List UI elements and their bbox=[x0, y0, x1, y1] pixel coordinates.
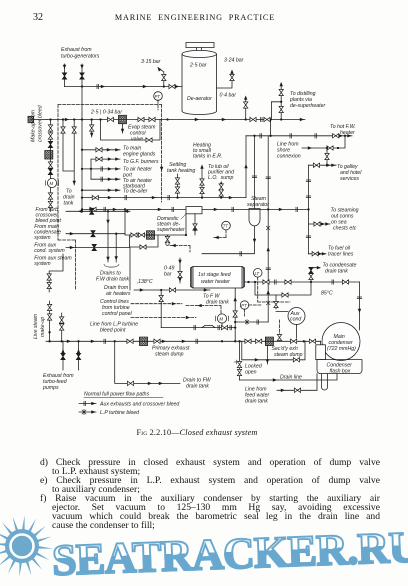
svg-text:pumps: pumps bbox=[42, 385, 59, 391]
svg-text:M: M bbox=[50, 181, 54, 186]
svg-text:chests etc: chests etc bbox=[333, 226, 357, 232]
label: Heating to small tanks in E.R. bbox=[193, 143, 222, 160]
heater outlet row y282 bbox=[245, 281, 360, 283]
svg-text:LT: LT bbox=[255, 271, 260, 276]
label: Exhaust from turbo-feed pumps bbox=[42, 373, 74, 391]
pipe: heater drain to FW drain tank bbox=[196, 306, 221, 314]
label: 0.49 bar bbox=[164, 266, 174, 278]
separator feed pipe bbox=[254, 136, 256, 209]
bypass under de-superheater control valve bbox=[130, 235, 159, 247]
locked open valves bbox=[239, 341, 241, 380]
branch: to air heater starboard bbox=[91, 178, 120, 180]
riser from hot FW line to settling header bbox=[245, 136, 247, 198]
wire: drops from reduced range to drain tank bbox=[63, 120, 74, 186]
pipe: hot FW heater line y135.8 bbox=[246, 120, 352, 136]
svg-text:PT: PT bbox=[241, 303, 247, 308]
svg-text:De-aerator: De-aerator bbox=[187, 96, 212, 102]
svg-text:Live steam: Live steam bbox=[33, 313, 39, 339]
svg-text:Aux exhausts and crossover ble: Aux exhausts and crossover bleed bbox=[99, 402, 180, 408]
label: To condensate drain tank bbox=[323, 263, 357, 275]
valves: pressure reducing station right pair bbox=[250, 117, 256, 121]
label: live steam make-up (rotated) bbox=[33, 313, 46, 339]
label: To lub oil purifier and L.O. sump bbox=[207, 164, 235, 181]
dashed control to de-superheater bbox=[170, 246, 190, 253]
pipe: crossover bleed inlet y211.3 bbox=[66, 210, 130, 212]
svg-text:3·15 bar: 3·15 bar bbox=[141, 59, 161, 65]
label: make-up from crossover bleed (rotated) bbox=[31, 104, 44, 142]
instrument TT bbox=[222, 221, 231, 230]
drop to galley line bbox=[326, 148, 328, 165]
svg-text:superheater: superheater bbox=[157, 227, 185, 233]
label: Primary exhaust steam dump bbox=[152, 346, 190, 358]
svg-text:Normal full power flow paths: Normal full power flow paths bbox=[84, 392, 150, 398]
primary exhaust steam dump station bbox=[127, 339, 133, 343]
label: Evap steam control valve bbox=[128, 125, 156, 143]
relief valve with dashed control bbox=[279, 320, 281, 334]
label: Drain to FW drain tank bbox=[183, 378, 212, 390]
pipe: line from feed water drain tank bbox=[277, 374, 317, 391]
pipe: drain to FW drain tank bbox=[115, 341, 180, 383]
settling tank heating valves bbox=[177, 174, 179, 198]
valve on exhaust range bbox=[169, 84, 175, 88]
svg-text:‚138°C: ‚138°C bbox=[136, 279, 153, 285]
label: To F W drain tank bbox=[203, 294, 229, 306]
svg-text:L.O. sump: L.O. sump bbox=[208, 175, 233, 181]
svg-text:TT: TT bbox=[223, 224, 229, 229]
svg-text:open: open bbox=[245, 370, 257, 376]
instrument PT bbox=[154, 92, 163, 101]
label: From aux steam system bbox=[34, 256, 72, 268]
left column: live steam / condensate make-up train bbox=[50, 120, 52, 212]
branch: fuel oil tracer lines y253.8 bbox=[309, 253, 327, 255]
label: From aux cond system bbox=[34, 243, 65, 255]
valve: upstream of evap control valve bbox=[107, 117, 113, 121]
L.P. bleed riser x268.2 bbox=[267, 136, 269, 322]
label: Settling tank heating bbox=[167, 162, 195, 174]
svg-text:85°C: 85°C bbox=[321, 291, 333, 297]
label: Domestic steam de-superheater bbox=[157, 214, 186, 233]
svg-text:(722 mmHg): (722 mmHg) bbox=[327, 346, 356, 352]
label: Line from shore connexion bbox=[277, 142, 301, 160]
svg-text:bar: bar bbox=[164, 272, 172, 278]
pipe: engine room services header y209.4 bbox=[82, 208, 309, 210]
svg-text:M: M bbox=[219, 317, 223, 322]
drain drop x116 bbox=[115, 234, 117, 262]
watermark text bbox=[51, 522, 408, 586]
label: Control lines from turbine control panel bbox=[100, 299, 133, 317]
pipe: main L.P. exhaust range y341.3 bbox=[46, 340, 321, 342]
svg-text:drain tank: drain tank bbox=[206, 300, 229, 306]
label: Sec'd'y exh steam dump bbox=[272, 346, 303, 358]
control valve (hatched) make-up bbox=[45, 151, 53, 159]
svg-text:Exhaust from: Exhaust from bbox=[61, 47, 92, 53]
branch: to de-oiler bbox=[82, 189, 120, 191]
label: Locked open bbox=[245, 364, 263, 376]
svg-text:heater: heater bbox=[340, 130, 355, 136]
svg-text:1st stage feed: 1st stage feed bbox=[198, 272, 232, 278]
bypass loop secondary dump bbox=[242, 341, 305, 360]
wire: turbo-generator exhaust drops bbox=[65, 64, 83, 87]
to condensate drain tank branch bbox=[311, 268, 317, 282]
svg-text:steam dump: steam dump bbox=[274, 352, 303, 358]
svg-text:2·5 bar: 2·5 bar bbox=[189, 63, 207, 69]
svg-text:drain tank: drain tank bbox=[325, 269, 348, 275]
control valve (hatched) de-superheater bbox=[147, 231, 155, 239]
bypass loop around evap control valve bbox=[101, 120, 161, 141]
label: From main condensate system bbox=[34, 224, 61, 241]
svg-text:drain tank: drain tank bbox=[186, 384, 209, 390]
control valve (hatched) evap steam bbox=[119, 115, 127, 123]
pipe: to aux condenser y322 bbox=[235, 321, 268, 323]
label: To steaming out conns on sea chests etc bbox=[331, 208, 359, 232]
dashed control lines from panel bbox=[131, 304, 196, 318]
branch: to air heater port bbox=[82, 168, 120, 170]
label: Line from feed water drain tank bbox=[245, 387, 269, 405]
heating small tanks valves bbox=[201, 166, 203, 198]
aux condenser feed valve bbox=[276, 295, 288, 312]
bypass row y295 bbox=[255, 282, 311, 295]
drain drop x108 bbox=[107, 211, 109, 262]
barometric seal leg bbox=[322, 374, 328, 390]
svg-text:de-superheater: de-superheater bbox=[290, 103, 325, 109]
svg-text:air heaters: air heaters bbox=[106, 291, 131, 297]
pipe: air heater drain y290 bbox=[134, 290, 210, 328]
svg-text:control panel: control panel bbox=[102, 311, 133, 317]
relief valve on de-superheater bbox=[167, 235, 169, 241]
dump outlet arrow down bbox=[266, 346, 268, 365]
valves downstream of evap control valve bbox=[138, 117, 144, 121]
svg-text:make-up: make-up bbox=[40, 317, 46, 337]
heater steam supply bbox=[179, 258, 181, 283]
main condenser bbox=[322, 323, 360, 361]
label: Main condenser (722 mmHg) bbox=[327, 334, 356, 352]
svg-text:Drain line: Drain line bbox=[280, 375, 302, 381]
aux steam riser bbox=[49, 254, 63, 292]
svg-text:tracer lines: tracer lines bbox=[328, 252, 354, 258]
svg-text:drain tank: drain tank bbox=[245, 399, 268, 405]
legend symbol: L.P turbine bleed bbox=[79, 411, 96, 413]
turbo feed pump exhausts bbox=[63, 341, 79, 370]
label: 1st stage feed water heater bbox=[198, 272, 232, 285]
relief branch 3.15 bar bbox=[158, 68, 164, 87]
svg-text:2·5 | 0·34 bar: 2·5 | 0·34 bar bbox=[90, 110, 122, 116]
svg-text:system: system bbox=[34, 261, 51, 267]
valve 3.24 bar branch bbox=[230, 74, 234, 80]
condenser flash box bbox=[317, 360, 362, 374]
valve: turbo-generator exhaust stop valves bbox=[62, 73, 66, 79]
1st stage feed water heater bbox=[193, 267, 242, 289]
drop valves from reduced range bbox=[91, 120, 93, 138]
de-aerator cap bbox=[186, 43, 214, 52]
aux condenser bbox=[288, 308, 305, 325]
left edge feed box bbox=[28, 116, 34, 122]
pipe: aux condensate inlet y247.5 bbox=[66, 248, 130, 291]
svg-text:Make-up from: Make-up from bbox=[31, 109, 37, 142]
watermark sun logo bbox=[0, 510, 58, 582]
lub oil purifier valves bbox=[220, 182, 222, 198]
wire: drop from exhaust range to reduced range bbox=[81, 87, 83, 120]
de-aerator vessel bbox=[182, 54, 217, 111]
pipe: reduced pressure range y119.5 bbox=[47, 119, 305, 121]
svg-text:connexion: connexion bbox=[277, 154, 301, 160]
label: Condenser flash box bbox=[327, 363, 353, 375]
svg-text:valve: valve bbox=[131, 137, 143, 143]
svg-text:3·24 bar: 3·24 bar bbox=[224, 58, 244, 64]
svg-text:L.P turbine bleed: L.P turbine bleed bbox=[100, 410, 140, 416]
pipe: galley services y165.2 bbox=[309, 164, 337, 166]
label: Steam separator bbox=[247, 196, 269, 208]
svg-text:To de-oiler: To de-oiler bbox=[123, 188, 148, 194]
label: Drain from air heaters bbox=[104, 285, 131, 297]
instrument LT bbox=[253, 269, 262, 278]
label: Line from L.P turbine bleed point bbox=[90, 322, 138, 334]
svg-text:F.W drain tank: F.W drain tank bbox=[96, 277, 129, 283]
svg-text:cond. system: cond. system bbox=[34, 248, 65, 254]
de-superheater water supply row y235 bbox=[125, 209, 186, 235]
label: From turb crossover bleed point bbox=[36, 207, 62, 224]
svg-text:separator: separator bbox=[247, 202, 269, 208]
svg-text:cond: cond bbox=[290, 317, 302, 323]
svg-text:water heater: water heater bbox=[201, 279, 230, 285]
motorised valve M (dump control) bbox=[217, 314, 226, 323]
instrument PT (heater) bbox=[240, 301, 248, 309]
svg-text:engine glands: engine glands bbox=[123, 152, 156, 158]
label: To distilling plants via de-superheater bbox=[289, 91, 325, 109]
pipe: shore connexion y148 bbox=[302, 136, 345, 148]
svg-text:services: services bbox=[340, 176, 359, 182]
pipe: auxiliary exhaust range y86.5 bbox=[65, 86, 183, 88]
svg-text:system: system bbox=[34, 235, 51, 241]
svg-text:tank: tank bbox=[64, 201, 74, 207]
condenser inlet drop bbox=[321, 282, 360, 345]
pipe: LP exhaust y327.6 bbox=[161, 327, 235, 329]
label: To fuel oil tracer lines bbox=[328, 246, 354, 258]
legend symbol: aux exhausts and crossover bleed bbox=[79, 403, 96, 405]
label: To hot F.W. heater bbox=[330, 124, 356, 136]
bracket: drains to FW drain tank bbox=[104, 265, 119, 268]
secondary exhaust steam dump station bbox=[245, 339, 251, 343]
svg-text:steam dump: steam dump bbox=[155, 352, 184, 358]
motorised valve M bbox=[47, 178, 56, 187]
branch: steaming out connections y224 bbox=[309, 223, 331, 225]
svg-text:crossover bleed: crossover bleed bbox=[38, 104, 44, 142]
air ejector suction box bbox=[316, 345, 326, 360]
pipe: 0.4 bar branch bbox=[245, 97, 247, 120]
svg-text:bleed point: bleed point bbox=[100, 328, 126, 334]
outlet valve de-superheater bbox=[194, 214, 196, 235]
dashed control enclosure bbox=[58, 105, 162, 291]
svg-text:0·4 bar: 0·4 bar bbox=[220, 93, 237, 99]
pipe: de-aerator outlet right bbox=[217, 71, 233, 88]
separator drain bbox=[202, 226, 255, 253]
domestic steam de-superheater vessel bbox=[186, 207, 202, 214]
pipe: main condensate inlet y233.7 bbox=[66, 233, 125, 235]
branch: to main engine glands bbox=[82, 149, 120, 151]
svg-text:tanks in E.R.: tanks in E.R. bbox=[193, 154, 222, 160]
heater drain column x235 bbox=[234, 288, 236, 342]
branch: to G.F. burners bbox=[91, 159, 120, 179]
pipe: settling tank heating header y197.6 bbox=[82, 197, 246, 199]
drain line from flash box bbox=[240, 374, 338, 380]
distilling plants branch bbox=[271, 83, 281, 120]
svg-text:PT: PT bbox=[155, 94, 161, 99]
label: Exhaust from turbo-generators bbox=[61, 47, 100, 60]
label: To galley and hotel services bbox=[337, 164, 362, 182]
svg-text:turbo-generators: turbo-generators bbox=[61, 54, 100, 60]
steam separator bbox=[249, 209, 260, 226]
svg-text:flash box: flash box bbox=[330, 369, 351, 375]
pipe: left distribution header x82 bbox=[81, 120, 83, 212]
svg-text:tank heating: tank heating bbox=[167, 168, 195, 174]
label: To drain tank bbox=[63, 189, 75, 207]
pipe: right services header x308.5 bbox=[308, 165, 310, 254]
live steam make-up valves bbox=[49, 301, 51, 341]
svg-text:To G.F. burners: To G.F. burners bbox=[123, 159, 159, 165]
